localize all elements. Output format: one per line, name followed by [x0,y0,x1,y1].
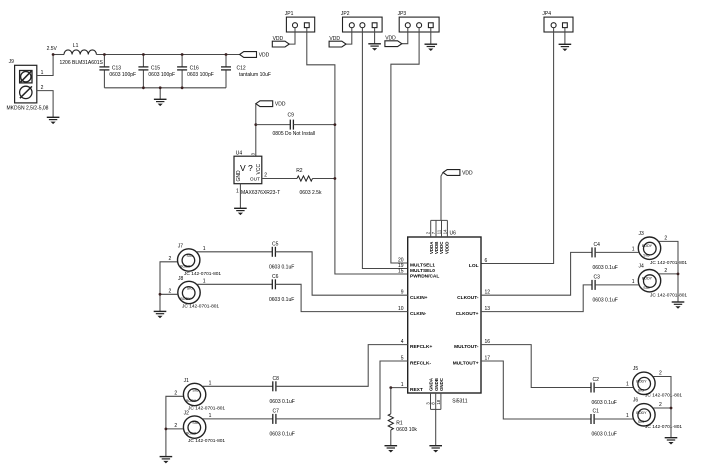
svg-text:C16: C16 [190,66,199,72]
svg-text:BODY: BODY [636,411,647,415]
svg-text:2: 2 [664,268,667,274]
svg-text:J1: J1 [184,378,190,384]
svg-text:J8: J8 [178,276,184,282]
svg-text:C1: C1 [593,409,600,415]
svg-text:REXT: REXT [410,387,423,393]
svg-text:SIG: SIG [192,389,198,393]
svg-text:1206 BLM31A601S: 1206 BLM31A601S [60,60,104,66]
svg-text:J6: J6 [633,398,639,404]
svg-text:Si5311: Si5311 [452,399,467,405]
svg-text:0603 0.1uF: 0603 0.1uF [269,264,294,270]
svg-text:C5: C5 [272,242,279,248]
svg-text:2: 2 [426,231,431,234]
svg-text:SIG: SIG [192,421,198,425]
svg-text:2: 2 [169,288,172,294]
svg-text:VDDD: VDDD [444,242,449,254]
svg-text:0603 0.1uF: 0603 0.1uF [270,399,295,405]
svg-text:0603 0.1uF: 0603 0.1uF [593,297,618,303]
svg-text:1: 1 [626,382,629,388]
svg-text:PWRDN/CAL: PWRDN/CAL [410,274,439,280]
svg-text:U4: U4 [236,151,243,157]
svg-text:0603 0.1uF: 0603 0.1uF [592,432,617,438]
svg-text:1: 1 [203,278,206,284]
svg-text:C3: C3 [594,275,601,281]
svg-text:BODY: BODY [642,277,653,281]
svg-text:JC 142-0701-801: JC 142-0701-801 [184,271,221,277]
svg-text:SIG: SIG [638,389,644,393]
svg-text:C8: C8 [273,376,280,382]
svg-text:0603 0.1uF: 0603 0.1uF [270,431,295,437]
svg-text:2: 2 [264,173,267,179]
svg-text:2: 2 [659,402,662,408]
svg-text:JP2: JP2 [341,11,350,17]
svg-text:JC 142-0701-801: JC 142-0701-801 [645,393,682,399]
svg-text:0603 10k: 0603 10k [396,427,417,433]
svg-text:C12: C12 [237,66,246,72]
svg-text:0603 100pF: 0603 100pF [187,72,214,78]
svg-text:MKDSN 2,5/2-5,08: MKDSN 2,5/2-5,08 [7,105,49,111]
svg-text:0603 0.1uF: 0603 0.1uF [269,297,294,303]
svg-text:JC 142-0701-801: JC 142-0701-801 [188,438,225,444]
svg-text:0603 100pF: 0603 100pF [148,72,175,78]
svg-text:1: 1 [203,246,206,252]
svg-text:14: 14 [442,229,447,234]
svg-text:C15: C15 [151,66,160,72]
svg-text:MULTOUT-: MULTOUT- [454,344,479,350]
svg-text:11: 11 [437,229,442,234]
svg-text:R1: R1 [396,421,403,427]
svg-text:0603 100pF: 0603 100pF [109,72,136,78]
svg-text:0805 Do Not Install: 0805 Do Not Install [273,131,316,137]
svg-text:2: 2 [174,423,177,429]
svg-text:JC 142-0701-801: JC 142-0701-801 [650,293,687,299]
svg-text:1: 1 [209,380,212,386]
svg-text:JC 142-0701-801: JC 142-0701-801 [645,424,682,430]
svg-text:VDD: VDD [259,53,270,59]
svg-text:VDD: VDD [385,36,396,42]
svg-text:6: 6 [485,258,488,264]
svg-text:J2: J2 [184,411,190,417]
svg-text:REFCLK-: REFCLK- [410,361,431,367]
svg-text:J9: J9 [9,59,15,65]
svg-text:OUT: OUT [250,176,260,182]
svg-text:JC 142-0701-801: JC 142-0701-801 [650,260,687,266]
svg-text:VDD: VDD [275,102,286,108]
svg-text:MULTSEL0: MULTSEL0 [410,268,435,274]
svg-text:0603 0.1uF: 0603 0.1uF [593,265,618,271]
svg-text:7: 7 [431,231,436,234]
svg-text:3: 3 [250,152,255,155]
svg-text:JP4: JP4 [542,11,551,17]
svg-text:2: 2 [169,256,172,262]
svg-text:J3: J3 [639,231,645,237]
svg-text:SIG: SIG [187,254,193,258]
svg-text:R2: R2 [296,168,303,174]
svg-text:VDD: VDD [329,36,340,42]
svg-text:VCC: VCC [256,164,262,175]
svg-text:SIG: SIG [638,420,644,424]
svg-text:REFCLK+: REFCLK+ [410,344,432,350]
svg-text:18: 18 [436,399,441,404]
svg-text:1: 1 [209,413,212,419]
svg-text:2: 2 [174,390,177,396]
svg-text:VDD: VDD [462,171,473,177]
svg-text:2: 2 [664,235,667,241]
svg-text:VDD: VDD [273,36,284,42]
svg-text:2.5V: 2.5V [47,46,58,52]
svg-text:CLKOUT+: CLKOUT+ [456,311,479,317]
svg-text:C6: C6 [272,274,279,280]
svg-text:SIG: SIG [187,287,193,291]
svg-text:2: 2 [41,85,44,91]
svg-text:BODY: BODY [180,297,191,301]
svg-text:C13: C13 [112,66,121,72]
svg-text:MULTSEL1: MULTSEL1 [410,263,435,269]
svg-text:C4: C4 [594,242,601,248]
svg-text:J4: J4 [639,264,645,270]
svg-text:0603 2.5k: 0603 2.5k [300,190,322,196]
svg-text:CLKIN-: CLKIN- [410,311,427,317]
svg-text:1: 1 [236,188,239,194]
svg-text:GND: GND [236,170,242,182]
svg-text:U6: U6 [450,231,457,237]
svg-text:JC 142-0701-801: JC 142-0701-801 [188,405,225,411]
svg-text:SIG: SIG [643,286,649,290]
svg-text:BODY: BODY [636,379,647,383]
svg-text:1: 1 [632,246,635,252]
svg-text:JP3: JP3 [398,11,407,17]
svg-text:GNDC: GNDC [439,377,444,391]
svg-text:tantalum 10uF: tantalum 10uF [239,72,271,78]
svg-text:BODY: BODY [180,265,191,269]
svg-text:SIG: SIG [643,253,649,257]
svg-text:MAX6376XR23-T: MAX6376XR23-T [241,190,280,196]
svg-text:BODY: BODY [186,432,197,436]
svg-text:0603 0.1uF: 0603 0.1uF [592,400,617,406]
svg-text:J7: J7 [178,243,184,249]
svg-text:C2: C2 [593,377,600,383]
svg-text:LOL: LOL [469,263,479,269]
svg-text:JC 142-0701-801: JC 142-0701-801 [182,303,219,309]
svg-text:MULTOUT+: MULTOUT+ [453,361,479,367]
svg-text:2: 2 [659,371,662,377]
svg-text:1: 1 [41,70,44,76]
svg-text:CLKIN+: CLKIN+ [410,295,428,301]
svg-text:1: 1 [626,413,629,419]
svg-text:C9: C9 [288,113,295,119]
svg-text:BODY: BODY [186,399,197,403]
svg-text:J5: J5 [633,366,639,372]
svg-text:C7: C7 [273,409,280,415]
svg-text:15: 15 [398,268,404,274]
svg-text:BODY: BODY [642,244,653,248]
svg-text:JP1: JP1 [285,11,294,17]
svg-text:L1: L1 [73,43,79,49]
svg-text:CLKOUT-: CLKOUT- [457,295,479,301]
svg-text:1: 1 [632,279,635,285]
